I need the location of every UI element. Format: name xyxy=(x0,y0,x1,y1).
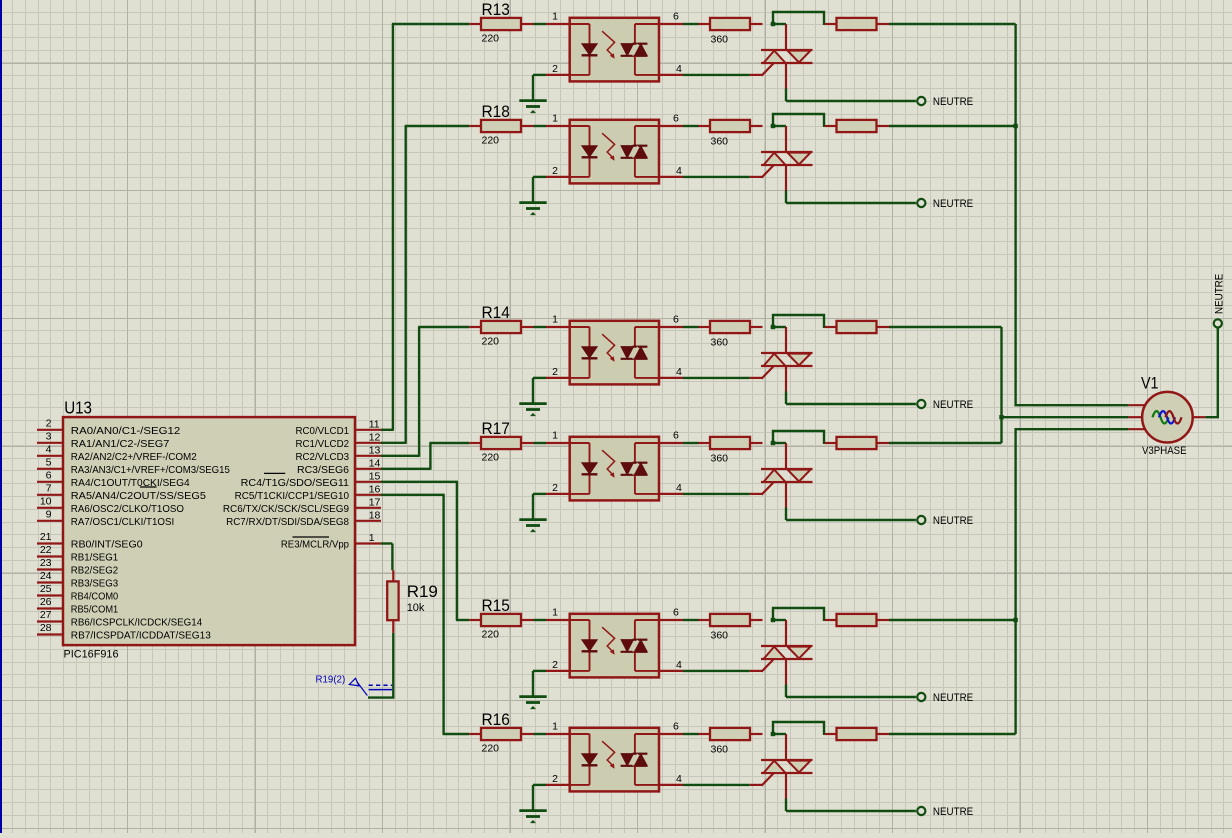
svg-text:360: 360 xyxy=(711,336,729,348)
svg-text:10: 10 xyxy=(40,495,52,507)
wire ground elbow to opto pin 2 (channel 4) xyxy=(533,493,546,495)
wire R17 to optocoupler pin1 (channel 4) xyxy=(534,442,547,444)
microcontroller U13 body xyxy=(63,417,355,645)
svg-text:220: 220 xyxy=(482,32,500,44)
wire snubber resistor to phase bus (channel 4) xyxy=(889,442,1002,444)
svg-text:RC5/T1CKI/CCP1/SEG10: RC5/T1CKI/CCP1/SEG10 xyxy=(235,491,350,502)
optocoupler pin 6 stub (channel 4) xyxy=(659,442,683,444)
wire R16 to optocoupler pin1 (channel 6) xyxy=(534,733,547,735)
U13 pin 4 (RA2) xyxy=(37,455,63,457)
optocoupler pin 1 stub (channel 3) xyxy=(546,326,570,328)
svg-text:RB0/INT/SEG0: RB0/INT/SEG0 xyxy=(71,540,143,551)
phase bus C lower (rows 5-6 to V1 pin3) xyxy=(1016,429,1129,734)
svg-text:12: 12 xyxy=(369,431,381,443)
svg-text:NEUTRE: NEUTRE xyxy=(933,806,973,818)
resistor 360 (channel 5) xyxy=(698,619,710,621)
overline SS on RA5 xyxy=(140,486,157,488)
ground (channel 1) xyxy=(532,75,534,101)
U13 pin 3 (RA1) xyxy=(37,442,63,444)
svg-text:360: 360 xyxy=(711,629,729,641)
svg-text:10k: 10k xyxy=(407,602,425,614)
svg-text:RA4/C1OUT/T0CKI/SEG4: RA4/C1OUT/T0CKI/SEG4 xyxy=(71,478,190,489)
wire opto pin6 to 360 resistor (channel 4) xyxy=(683,442,699,444)
U13 pin 12 (RC1) xyxy=(355,442,381,444)
svg-text:27: 27 xyxy=(40,609,52,621)
wire R15 to optocoupler pin1 (channel 5) xyxy=(534,619,547,621)
optocoupler pin 1 stub (channel 1) xyxy=(546,23,570,25)
svg-text:RC6/TX/CK/SCK/SCL/SEG9: RC6/TX/CK/SCK/SCL/SEG9 xyxy=(223,504,349,515)
resistor 360 (channel 3) xyxy=(698,326,710,328)
resistor R14 220 (channel 3) xyxy=(469,326,481,328)
V1 pin stubs xyxy=(1128,404,1146,406)
svg-text:3: 3 xyxy=(46,430,52,442)
U13 pin 22 (RB1) xyxy=(37,555,63,557)
svg-text:R16: R16 xyxy=(482,710,510,729)
svg-text:RA3/AN3/C1+/VREF+/COM3/SEG15: RA3/AN3/C1+/VREF+/COM3/SEG15 xyxy=(71,465,230,476)
terminal NEUTRE (channel 4) xyxy=(917,516,925,524)
svg-text:RB6/ICSPCLK/ICDCK/SEG14: RB6/ICSPCLK/ICDCK/SEG14 xyxy=(71,618,203,629)
svg-text:RB1/SEG1: RB1/SEG1 xyxy=(71,553,119,564)
optocoupler pin 4 stub (channel 1) xyxy=(659,74,683,76)
wire bus column to R18 (channel 2) xyxy=(405,125,470,127)
resistor 360 (channel 1) xyxy=(698,23,710,25)
wire snubber resistor to phase bus (channel 2) xyxy=(889,125,1016,127)
svg-text:1: 1 xyxy=(552,607,558,619)
svg-text:4: 4 xyxy=(676,366,682,378)
svg-text:23: 23 xyxy=(40,557,52,569)
U13 pin 15 (RC4) xyxy=(355,481,381,483)
svg-text:5: 5 xyxy=(46,456,52,468)
svg-text:220: 220 xyxy=(482,451,500,463)
wire bus column to R16 (channel 6) xyxy=(443,733,470,735)
svg-text:RB3/SEG3: RB3/SEG3 xyxy=(71,579,119,590)
svg-text:360: 360 xyxy=(711,743,729,755)
U13 pin 28 (RB7) xyxy=(37,633,63,635)
wire triac to NEUTRE terminal (channel 2) xyxy=(786,202,916,204)
U13 pin 2 (RA0) xyxy=(37,429,63,431)
wire snubber resistor to phase bus (channel 1) xyxy=(889,23,1016,25)
U13 pin 14 (RC3) xyxy=(355,468,381,470)
wire 360 resistor to junction (channel 2) xyxy=(771,125,786,127)
wire bus column to R13 (channel 1) xyxy=(392,23,469,25)
wire triac to NEUTRE terminal (channel 4) xyxy=(786,519,916,521)
snubber resistor (channel 3) xyxy=(825,326,837,328)
wire opto pin6 to 360 resistor (channel 6) xyxy=(683,733,699,735)
svg-text:6: 6 xyxy=(673,607,679,619)
svg-text:6: 6 xyxy=(673,430,679,442)
U13 pin 16 (RC5) xyxy=(355,494,381,496)
node junction at 360/triac (channel 5) xyxy=(771,618,775,622)
U13 pin 1 (RE3) xyxy=(355,542,381,544)
svg-text:13: 13 xyxy=(369,444,381,456)
wire 360 resistor to junction (channel 1) xyxy=(771,23,786,25)
node junction at 360/triac (channel 3) xyxy=(771,325,775,329)
wire 360 resistor to junction (channel 5) xyxy=(771,619,786,621)
phase bus B (rows 3-4 to V1 pin2) xyxy=(1000,327,1002,443)
svg-text:2: 2 xyxy=(552,659,558,671)
svg-text:RA5/AN4/C2OUT/SS/SEG5: RA5/AN4/C2OUT/SS/SEG5 xyxy=(71,491,206,502)
wire opto pin6 to 360 resistor (channel 2) xyxy=(683,125,699,127)
svg-text:RC4/T1G/SDO/SEG11: RC4/T1G/SDO/SEG11 xyxy=(241,478,350,489)
svg-text:4: 4 xyxy=(676,482,682,494)
triac (channel 2) xyxy=(785,126,787,152)
svg-text:NEUTRE: NEUTRE xyxy=(933,399,973,411)
svg-text:RB2/SEG2: RB2/SEG2 xyxy=(71,566,119,577)
svg-text:R14: R14 xyxy=(482,303,510,322)
wire opto pin4 to triac gate (channel 3) xyxy=(683,377,750,379)
svg-text:11: 11 xyxy=(369,418,380,430)
wire 360 resistor to junction (channel 4) xyxy=(771,442,786,444)
wire R14 to optocoupler pin1 (channel 3) xyxy=(534,326,547,328)
wire ground elbow to opto pin 2 (channel 1) xyxy=(533,74,546,76)
svg-text:25: 25 xyxy=(40,583,52,595)
opto-triac coupler (channel 6) xyxy=(570,728,659,792)
U13 pin 18 (RC7) xyxy=(355,520,381,522)
svg-text:220: 220 xyxy=(482,628,500,640)
triac (channel 5) xyxy=(785,620,787,646)
snubber resistor (channel 1) xyxy=(825,23,837,25)
resistor R16 220 (channel 6) xyxy=(469,733,481,735)
svg-text:2: 2 xyxy=(552,482,558,494)
wire R13 to optocoupler pin1 (channel 1) xyxy=(534,23,547,25)
svg-text:2: 2 xyxy=(552,366,558,378)
U13 pin 9 (RA7) xyxy=(37,520,63,522)
optocoupler pin 2 stub (channel 6) xyxy=(546,784,570,786)
wire opto pin4 to triac gate (channel 4) xyxy=(683,493,750,495)
node junction at 360/triac (channel 2) xyxy=(771,124,775,128)
svg-text:RC7/RX/DT/SDI/SDA/SEG8: RC7/RX/DT/SDI/SDA/SEG8 xyxy=(226,517,349,528)
source V1 V3PHASE xyxy=(1142,392,1193,443)
optocoupler pin 4 stub (channel 2) xyxy=(659,176,683,178)
wire PIC pin to bus column (channel 3) xyxy=(381,455,419,457)
svg-text:6: 6 xyxy=(46,469,52,481)
wire U13 RE3 to R19 xyxy=(381,542,392,544)
resistor 360 (channel 2) xyxy=(698,125,710,127)
optocoupler pin 1 stub (channel 4) xyxy=(546,442,570,444)
svg-text:360: 360 xyxy=(711,33,729,45)
U13 pin 5 (RA3) xyxy=(37,468,63,470)
triac (channel 6) xyxy=(785,734,787,760)
svg-text:NEUTRE: NEUTRE xyxy=(933,692,973,704)
U13 pin 26 (RB5) xyxy=(37,607,63,609)
optocoupler pin 4 stub (channel 5) xyxy=(659,670,683,672)
wire bus column to R15 (channel 5) xyxy=(456,619,469,621)
svg-text:360: 360 xyxy=(711,135,729,147)
svg-text:R15: R15 xyxy=(482,596,510,615)
opto-triac coupler (channel 5) xyxy=(570,614,659,678)
svg-text:22: 22 xyxy=(40,544,52,556)
svg-text:NEUTRE: NEUTRE xyxy=(933,198,973,210)
U13 pin 7 (RA5) xyxy=(37,494,63,496)
svg-text:15: 15 xyxy=(369,470,381,482)
wire junction over-route to snubber resistor (channel 2) xyxy=(773,114,824,127)
svg-text:2: 2 xyxy=(552,773,558,785)
optocoupler pin 6 stub (channel 3) xyxy=(659,326,683,328)
optocoupler pin 6 stub (channel 1) xyxy=(659,23,683,25)
resistor R15 220 (channel 5) xyxy=(469,619,481,621)
opto-triac coupler (channel 1) xyxy=(570,18,659,82)
wire PIC pin to bus column (channel 2) xyxy=(381,442,406,444)
resistor R17 220 (channel 4) xyxy=(469,442,481,444)
triac (channel 4) xyxy=(785,443,787,469)
U13 pin 11 (RC0) xyxy=(355,429,381,431)
svg-text:RC1/VLCD2: RC1/VLCD2 xyxy=(296,439,350,450)
wire opto pin4 to triac gate (channel 1) xyxy=(683,74,750,76)
wire opto pin6 to 360 resistor (channel 5) xyxy=(683,619,699,621)
ground (channel 3) xyxy=(532,378,534,404)
opto-triac coupler (channel 4) xyxy=(570,437,659,501)
ground (channel 6) xyxy=(532,785,534,811)
wire snubber resistor to phase bus (channel 6) xyxy=(889,733,1016,735)
wire opto pin4 to triac gate (channel 6) xyxy=(683,784,750,786)
wire 360 resistor to junction (channel 6) xyxy=(771,733,786,735)
triac (channel 3) xyxy=(785,327,787,353)
svg-text:1: 1 xyxy=(552,113,558,125)
svg-text:R13: R13 xyxy=(482,0,510,19)
opto-triac coupler (channel 3) xyxy=(570,321,659,385)
svg-text:U13: U13 xyxy=(64,397,92,417)
wire triac to NEUTRE terminal (channel 1) xyxy=(786,100,916,102)
resistor R13 220 (channel 1) xyxy=(469,23,481,25)
svg-text:7: 7 xyxy=(46,482,52,494)
svg-text:2: 2 xyxy=(552,63,558,75)
wire PIC pin to bus column (channel 6) xyxy=(381,494,444,496)
svg-text:1: 1 xyxy=(552,430,558,442)
optocoupler pin 4 stub (channel 6) xyxy=(659,784,683,786)
snubber resistor (channel 6) xyxy=(825,733,837,735)
optocoupler pin 1 stub (channel 5) xyxy=(546,619,570,621)
wire junction over-route to snubber resistor (channel 6) xyxy=(773,722,824,735)
wire triac to NEUTRE terminal (channel 6) xyxy=(786,810,916,812)
svg-text:RB5/COM1: RB5/COM1 xyxy=(71,605,119,616)
node junction at 360/triac (channel 1) xyxy=(771,22,775,26)
U13 pin 21 (RB0) xyxy=(37,542,63,544)
U13 pin 24 (RB3) xyxy=(37,581,63,583)
svg-text:1: 1 xyxy=(552,314,558,326)
wire snubber resistor to phase bus (channel 3) xyxy=(889,326,1002,328)
wire PIC pin to bus column (channel 1) xyxy=(381,429,393,431)
U13 pin 10 (RA6) xyxy=(37,507,63,509)
svg-text:1: 1 xyxy=(369,532,375,544)
junction bus C row5 xyxy=(1013,618,1017,622)
svg-text:RC2/VLCD3: RC2/VLCD3 xyxy=(296,452,350,463)
wire triac to NEUTRE terminal (channel 5) xyxy=(786,696,916,698)
optocoupler pin 6 stub (channel 2) xyxy=(659,125,683,127)
svg-text:V3PHASE: V3PHASE xyxy=(1142,445,1187,457)
sheet edge border xyxy=(0,0,2,833)
optocoupler pin 1 stub (channel 6) xyxy=(546,733,570,735)
svg-text:RB7/ICSPDAT/ICDDAT/SEG13: RB7/ICSPDAT/ICDDAT/SEG13 xyxy=(71,631,211,642)
svg-text:24: 24 xyxy=(40,570,52,582)
wire opto pin4 to triac gate (channel 5) xyxy=(683,670,750,672)
wire opto pin6 to 360 resistor (channel 1) xyxy=(683,23,699,25)
terminal NEUTRE (channel 1) xyxy=(917,97,925,105)
svg-text:R17: R17 xyxy=(482,419,510,438)
ground (channel 5) xyxy=(532,671,534,697)
svg-text:RC0/VLCD1: RC0/VLCD1 xyxy=(296,426,350,437)
svg-text:6: 6 xyxy=(673,113,679,125)
wire V1 to NEUTRE terminal xyxy=(1193,416,1206,418)
wire junction over-route to snubber resistor (channel 3) xyxy=(773,315,824,328)
svg-text:1: 1 xyxy=(552,11,558,23)
svg-text:1: 1 xyxy=(552,721,558,733)
resistor R18 220 (channel 2) xyxy=(469,125,481,127)
svg-text:4: 4 xyxy=(676,63,682,75)
svg-text:2: 2 xyxy=(552,165,558,177)
terminal NEUTRE (channel 5) xyxy=(917,693,925,701)
wire ground elbow to opto pin 2 (channel 3) xyxy=(533,377,546,379)
svg-text:NEUTRE: NEUTRE xyxy=(1214,274,1226,314)
svg-text:18: 18 xyxy=(369,509,381,521)
terminal NEUTRE (channel 3) xyxy=(917,400,925,408)
resistor 360 (channel 4) xyxy=(698,442,710,444)
U13 pin 23 (RB2) xyxy=(37,568,63,570)
svg-text:220: 220 xyxy=(482,134,500,146)
wire R18 to optocoupler pin1 (channel 2) xyxy=(534,125,547,127)
svg-text:16: 16 xyxy=(369,483,381,495)
snubber resistor (channel 5) xyxy=(825,619,837,621)
svg-text:RB4/COM0: RB4/COM0 xyxy=(71,592,119,603)
wire junction over-route to snubber resistor (channel 4) xyxy=(773,431,824,444)
svg-text:RA0/AN0/C1-/SEG12: RA0/AN0/C1-/SEG12 xyxy=(71,426,181,437)
svg-text:220: 220 xyxy=(482,335,500,347)
wire PIC pin to bus column (channel 4) xyxy=(381,468,430,470)
svg-text:R19: R19 xyxy=(407,582,438,601)
svg-text:V1: V1 xyxy=(1141,374,1159,393)
wire ground elbow to opto pin 2 (channel 5) xyxy=(533,670,546,672)
wire ground elbow to opto pin 2 (channel 2) xyxy=(533,176,546,178)
svg-text:NEUTRE: NEUTRE xyxy=(933,515,973,527)
optocoupler pin 4 stub (channel 4) xyxy=(659,493,683,495)
svg-text:2: 2 xyxy=(46,417,52,429)
optocoupler pin 4 stub (channel 3) xyxy=(659,377,683,379)
svg-text:RA7/OSC1/CLKI/T1OSI: RA7/OSC1/CLKI/T1OSI xyxy=(71,517,174,528)
svg-text:4: 4 xyxy=(46,443,52,455)
svg-text:RA6/OSC2/CLKO/T1OSO: RA6/OSC2/CLKO/T1OSO xyxy=(71,504,184,515)
wire opto pin6 to 360 resistor (channel 3) xyxy=(683,326,699,328)
svg-text:6: 6 xyxy=(673,11,679,23)
wire opto pin4 to triac gate (channel 2) xyxy=(683,176,750,178)
wire junction over-route to snubber resistor (channel 1) xyxy=(773,12,824,25)
svg-text:17: 17 xyxy=(369,496,381,508)
junction bus B mid xyxy=(999,415,1003,419)
terminal NEUTRE (channel 6) xyxy=(917,807,925,815)
svg-text:R18: R18 xyxy=(482,102,510,121)
optocoupler pin 6 stub (channel 5) xyxy=(659,619,683,621)
optocoupler pin 2 stub (channel 4) xyxy=(546,493,570,495)
svg-text:RA1/AN1/C2-/SEG7: RA1/AN1/C2-/SEG7 xyxy=(71,439,170,450)
ground (channel 4) xyxy=(532,494,534,520)
wire PIC pin to bus column (channel 5) xyxy=(381,481,457,483)
svg-text:220: 220 xyxy=(482,742,500,754)
svg-text:4: 4 xyxy=(676,659,682,671)
terminal NEUTRE (V1 return) xyxy=(1214,319,1222,327)
overline T1G on RC4 xyxy=(264,472,285,474)
svg-text:4: 4 xyxy=(676,165,682,177)
U13 pin 17 (RC6) xyxy=(355,507,381,509)
svg-text:6: 6 xyxy=(673,314,679,326)
svg-text:RC3/SEG6: RC3/SEG6 xyxy=(297,465,349,476)
svg-text:28: 28 xyxy=(40,622,52,634)
triac (channel 1) xyxy=(785,24,787,50)
svg-text:RE3/MCLR/Vpp: RE3/MCLR/Vpp xyxy=(281,540,349,551)
svg-text:PIC16F916: PIC16F916 xyxy=(64,648,119,660)
node junction at 360/triac (channel 6) xyxy=(771,732,775,736)
optocoupler pin 2 stub (channel 1) xyxy=(546,74,570,76)
junction bus A row2 xyxy=(1013,124,1017,128)
terminal NEUTRE (channel 2) xyxy=(917,199,925,207)
optocoupler pin 2 stub (channel 2) xyxy=(546,176,570,178)
svg-text:14: 14 xyxy=(369,457,381,469)
node junction at 360/triac (channel 4) xyxy=(771,441,775,445)
wire snubber resistor to phase bus (channel 5) xyxy=(889,619,1016,621)
overline MCLR on RE3 xyxy=(293,536,330,538)
U13 pin 25 (RB4) xyxy=(37,594,63,596)
phase bus A upper (rows 1-2 to V1 pin1) xyxy=(1016,24,1129,405)
wire R19 to terminal R19(2) xyxy=(368,633,393,698)
svg-text:R19(2): R19(2) xyxy=(316,674,346,686)
optocoupler pin 2 stub (channel 5) xyxy=(546,670,570,672)
svg-text:9: 9 xyxy=(46,508,52,520)
U13 pin 13 (RC2) xyxy=(355,455,381,457)
snubber resistor (channel 4) xyxy=(825,442,837,444)
optocoupler pin 1 stub (channel 2) xyxy=(546,125,570,127)
svg-text:RA2/AN2/C2+/VREF-/COM2: RA2/AN2/C2+/VREF-/COM2 xyxy=(71,452,197,463)
resistor R19 10k xyxy=(392,570,394,581)
wire ground elbow to opto pin 2 (channel 6) xyxy=(533,784,546,786)
svg-text:NEUTRE: NEUTRE xyxy=(933,96,973,108)
wire triac to NEUTRE terminal (channel 3) xyxy=(786,403,916,405)
svg-text:6: 6 xyxy=(673,721,679,733)
wire bus column to R17 (channel 4) xyxy=(429,442,469,444)
ground (channel 2) xyxy=(532,177,534,203)
resistor 360 (channel 6) xyxy=(698,733,710,735)
snubber resistor (channel 2) xyxy=(825,125,837,127)
optocoupler pin 2 stub (channel 3) xyxy=(546,377,570,379)
svg-text:360: 360 xyxy=(711,452,729,464)
U13 pin 6 (RA4) xyxy=(37,481,63,483)
opto-triac coupler (channel 2) xyxy=(570,120,659,184)
svg-text:4: 4 xyxy=(676,773,682,785)
wire 360 resistor to junction (channel 3) xyxy=(771,326,786,328)
wire bus column to R14 (channel 3) xyxy=(418,326,469,328)
svg-text:21: 21 xyxy=(40,531,52,543)
svg-text:26: 26 xyxy=(40,596,52,608)
optocoupler pin 6 stub (channel 6) xyxy=(659,733,683,735)
wire junction over-route to snubber resistor (channel 5) xyxy=(773,608,824,621)
U13 pin 27 (RB6) xyxy=(37,620,63,622)
